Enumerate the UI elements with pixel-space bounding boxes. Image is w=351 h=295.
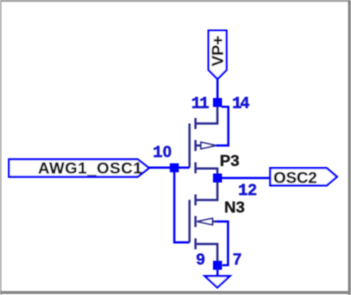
svg-text:OSC2: OSC2 <box>274 170 318 187</box>
N3 source tick (bottom) <box>194 238 196 249</box>
svg-text:N3: N3 <box>224 200 245 217</box>
P3 drain lead to output node <box>196 169 218 174</box>
transistor N3 gate plate <box>188 200 190 243</box>
svg-text:7: 7 <box>233 252 242 269</box>
N3 drain lead to output node <box>196 182 218 200</box>
svg-text:AWG1_OSC1: AWG1_OSC1 <box>38 160 143 177</box>
P3 bulk arrow (points right) <box>201 142 216 149</box>
node VDD junction <box>213 98 222 107</box>
N3 bulk stub <box>213 220 218 222</box>
P3 drain tick (bottom) <box>194 162 196 173</box>
panel border top <box>0 0 351 2</box>
flag AWG1_OSC1 <box>9 159 149 177</box>
flag VP+ <box>209 31 227 80</box>
N3 source lead to ground node <box>196 244 218 261</box>
svg-text:P3: P3 <box>220 153 240 170</box>
wire input to gates <box>149 167 190 169</box>
svg-text:10: 10 <box>153 143 172 162</box>
P3 bulk tick (middle) <box>194 140 196 151</box>
ground <box>205 276 230 287</box>
svg-text:VP+: VP+ <box>210 36 227 67</box>
transistor P3 gate plate <box>188 124 190 168</box>
N3 drain tick (top) <box>194 194 196 205</box>
node ground junction <box>213 261 222 270</box>
N3 bulk arrow (points left) <box>197 218 213 225</box>
wire junction down to N3 gate <box>174 168 189 243</box>
wire node14 step to bulk of P3 <box>216 107 228 146</box>
svg-text:14: 14 <box>232 94 249 113</box>
wire VP+ to node 14 <box>216 79 218 99</box>
wire output to OSC2 <box>222 177 271 179</box>
P3 bulk stub <box>196 144 202 146</box>
svg-text:11: 11 <box>191 94 209 113</box>
wire ground node stub <box>216 270 218 277</box>
panel border left <box>0 0 1 295</box>
svg-text:12: 12 <box>238 181 257 200</box>
node output junction <box>213 174 222 183</box>
panel border bottom <box>0 291 351 294</box>
N3 bulk tick (middle) <box>194 216 196 227</box>
node input junction <box>170 163 179 172</box>
P3 source tick (top) <box>194 118 196 129</box>
panel border right <box>348 0 351 295</box>
flag OSC2 <box>270 168 337 185</box>
svg-text:9: 9 <box>196 252 205 269</box>
P3 source lead to node 14 <box>196 107 218 124</box>
wire N3 bulk to ground node <box>217 222 229 266</box>
